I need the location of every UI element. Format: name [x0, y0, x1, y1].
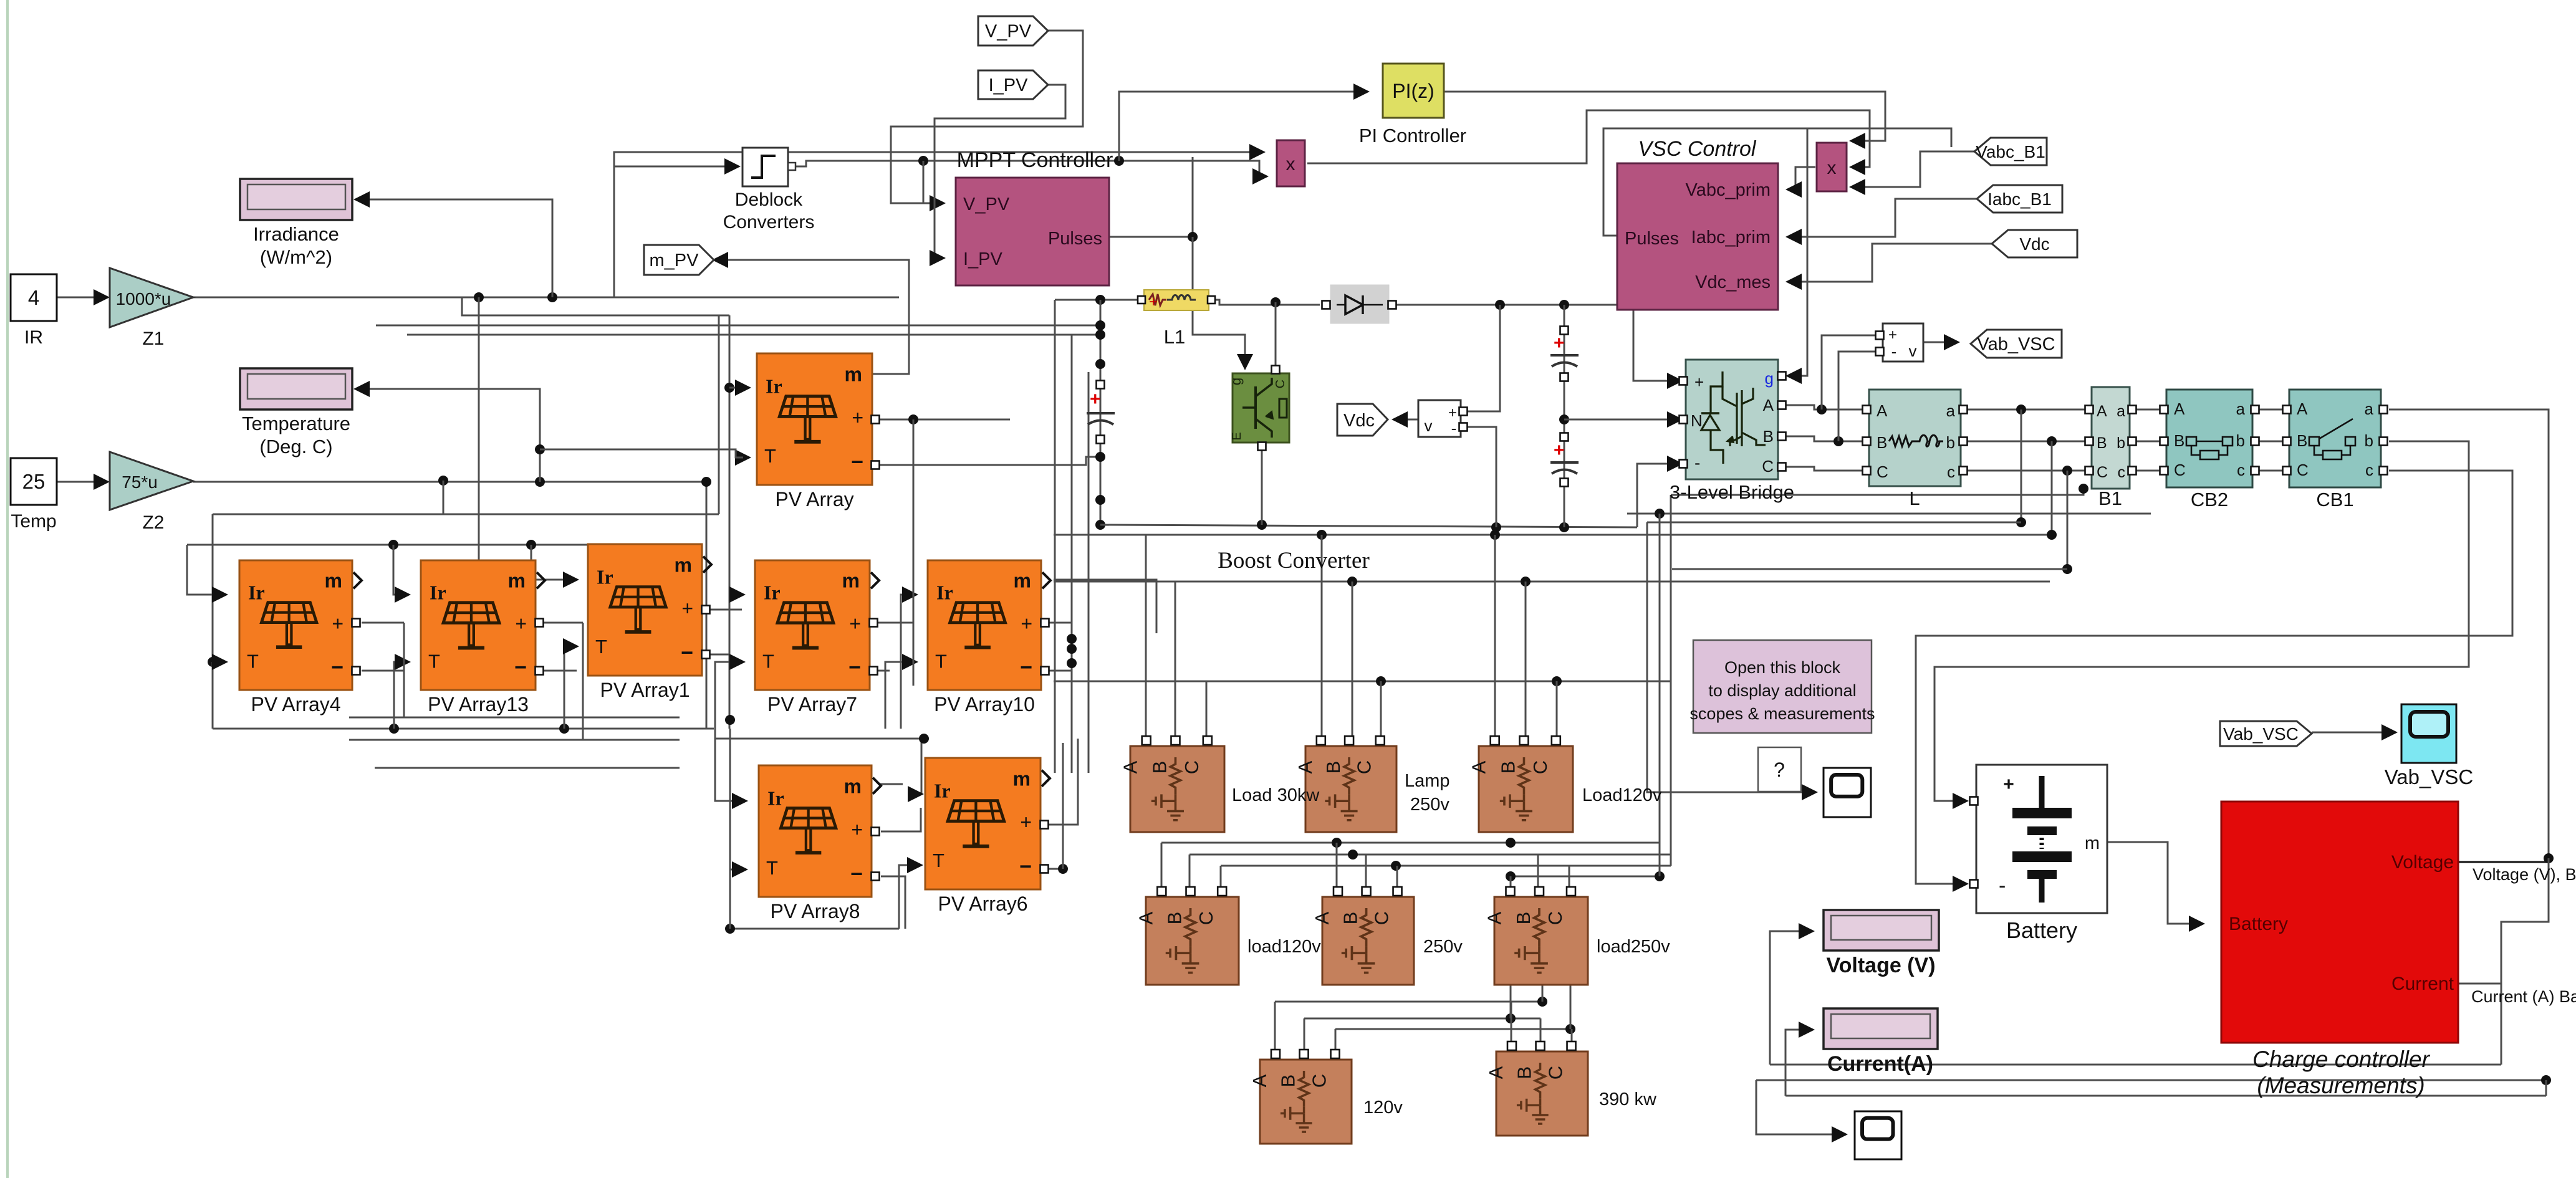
svg-text:load250v: load250v — [1597, 937, 1670, 957]
wire Ir riser to lower arrays — [729, 315, 731, 729]
wire PI output loop — [1444, 92, 1885, 141]
wire aux bus y838 — [1647, 522, 2021, 524]
svg-text:+: + — [851, 818, 863, 841]
svg-text:B: B — [1340, 912, 1362, 925]
svg-text:Ir: Ir — [764, 581, 781, 603]
port CB2 a — [2251, 406, 2259, 414]
wire load120v C drop — [1220, 866, 1222, 893]
wire 120v C drop — [1335, 1029, 1337, 1055]
node row2B j1 — [1348, 850, 1358, 860]
three phase load Load120v — [1468, 736, 1573, 832]
svg-text:B: B — [2174, 431, 2184, 450]
port L A — [1863, 406, 1871, 414]
wire PV Array6 minus stub — [1049, 868, 1063, 870]
node PV plus junction — [908, 414, 918, 424]
svg-text:T: T — [595, 636, 607, 658]
product block X2 — [1817, 143, 1847, 191]
wire Lamp A drop — [1321, 535, 1323, 742]
wire aux row2 horizontals a — [349, 717, 680, 719]
svg-text:C: C — [1529, 760, 1551, 774]
wire phase B row — [1782, 436, 1862, 441]
node riser B bottom — [2047, 530, 2057, 540]
svg-text:a: a — [1946, 401, 1956, 420]
wire Vdc from-tag to VSC — [1789, 244, 1992, 282]
wire riser bundle b — [1659, 514, 1661, 876]
port B1 b — [2128, 438, 2136, 446]
node PV Array6 minus junction — [1058, 864, 1068, 874]
from tag Iabc_B1 — [1977, 185, 2062, 213]
svg-text:Battery: Battery — [2006, 917, 2077, 943]
wire PV Array10 minus stub — [1049, 670, 1072, 672]
wire bottom return bus — [730, 928, 899, 930]
wire row3 bus A — [1275, 1001, 1542, 1003]
svg-text:B: B — [1148, 761, 1170, 774]
svg-text:Z2: Z2 — [142, 512, 164, 533]
wire T feed PV Array4 — [213, 661, 220, 663]
wire IR constant to gain Z1 — [57, 297, 105, 299]
wire VSC Pulses loop — [1603, 128, 1951, 236]
wire to Voltage display — [1770, 931, 1807, 1065]
arrowhead into PI controller — [1353, 84, 1370, 100]
svg-text:+: + — [1020, 811, 1032, 833]
svg-text:c: c — [2365, 461, 2373, 479]
wire phase A B1 to CB2 — [2136, 409, 2160, 411]
wire riser bundle c — [1670, 495, 1672, 866]
node row3B j — [1506, 1013, 1516, 1023]
svg-text:m: m — [508, 570, 526, 592]
svg-text:m: m — [845, 363, 862, 385]
wire DC bundle riser 3 — [1088, 372, 1090, 773]
svg-text:Vdc: Vdc — [1343, 411, 1375, 431]
node row2D j1 — [1506, 871, 1516, 881]
port cap3 top — [1560, 433, 1569, 441]
wire Ir drop PV Array13 — [393, 545, 403, 595]
wire phase B L to B1 — [1968, 441, 2085, 443]
wire T feed PV Array6 — [899, 865, 915, 929]
wire DC bundle riser 2 — [1071, 335, 1073, 773]
arrowhead into Irradiance display — [353, 191, 370, 208]
wire row3 bus B — [1304, 1018, 1540, 1020]
wire row2 bus A — [1161, 842, 1660, 844]
wire phase A L to B1 — [1968, 409, 2085, 411]
wire riser bundle a — [1647, 522, 1809, 792]
port B1 C — [2085, 467, 2093, 475]
wire bottom return drop — [729, 869, 731, 929]
battery block — [1976, 765, 2107, 913]
node Z2 output junction — [535, 477, 545, 487]
wire aux row2 horizontals c — [375, 767, 680, 769]
port PV Array8 minus — [872, 873, 880, 881]
node Ir bus junction b — [526, 540, 536, 550]
wire load250v A drop — [1510, 876, 1512, 893]
node cap1 j3 — [1095, 359, 1105, 369]
port PV Array1 minus — [702, 651, 710, 659]
svg-text:Ir: Ir — [766, 375, 782, 397]
arrowhead into bridge N — [1667, 411, 1683, 428]
node phase A vmeter tap — [1817, 405, 1827, 414]
svg-text:V_PV: V_PV — [963, 194, 1010, 214]
svg-text:Load120v: Load120v — [1582, 785, 1662, 805]
svg-text:-: - — [1451, 419, 1457, 438]
svg-text:Temperature: Temperature — [242, 413, 350, 434]
arrowhead into m_PV tag — [712, 252, 728, 268]
goto tag Vdc — [1337, 404, 1388, 436]
node T feed junction — [535, 444, 545, 454]
svg-text:B: B — [1877, 433, 1887, 452]
block Deblock Converters — [743, 148, 795, 186]
arrowhead into bridge g input — [1785, 368, 1802, 384]
svg-text:MPPT Controller: MPPT Controller — [957, 148, 1113, 172]
arrowhead into PV Array13 T — [395, 654, 411, 670]
wire PV Array13 plus riser — [582, 623, 584, 740]
svg-text:x: x — [1286, 154, 1295, 175]
wire T lower bus — [213, 728, 714, 730]
wire Lamp B drop — [1352, 582, 1353, 742]
port bridge plus — [1680, 377, 1688, 385]
wire voltmeter plus tap — [1468, 305, 1500, 411]
svg-text:Converters: Converters — [723, 212, 815, 232]
svg-text:Vab_VSC: Vab_VSC — [2223, 724, 2299, 744]
wire PV Array4 plus stub — [362, 622, 404, 624]
wire row3 riser c — [1570, 985, 1572, 1029]
wire Load120v B drop — [1525, 582, 1527, 742]
wire V_PV goto loop — [891, 31, 1083, 203]
svg-text:T: T — [766, 857, 778, 879]
port CB2 b — [2251, 438, 2259, 446]
wire load bus row1 A — [1054, 534, 2052, 536]
arrowhead into PV Array7 T — [729, 654, 746, 670]
svg-text:C: C — [1309, 1074, 1330, 1088]
wire Load30kw A drop — [1145, 535, 1147, 742]
svg-text:Ir: Ir — [767, 787, 784, 809]
svg-text:I_PV: I_PV — [989, 75, 1029, 95]
svg-text:B: B — [1322, 761, 1344, 774]
svg-text:m: m — [842, 570, 860, 592]
wire 250v A drop — [1336, 843, 1338, 893]
svg-text:m: m — [1014, 570, 1031, 592]
svg-text:Open this block: Open this block — [1724, 658, 1841, 677]
node aux bus j — [1655, 509, 1665, 519]
wire Ir feed PV Array8 — [715, 729, 740, 801]
port vmeter2 plus — [1876, 332, 1884, 340]
wire T hook — [212, 514, 214, 662]
wire T feed PV Array7 — [715, 662, 738, 729]
port diode anode — [1322, 301, 1330, 309]
display block Voltage V — [1824, 910, 1939, 951]
arrowhead into PV Array10 T — [902, 654, 918, 670]
wire I_PV goto loop — [935, 85, 1065, 258]
wire load120v A drop — [1161, 843, 1163, 893]
node bus C j2 — [1552, 676, 1562, 686]
PV array block PV Array1 — [588, 544, 711, 676]
wire phase A riser to load bus — [2021, 409, 2022, 522]
svg-text:Vdc: Vdc — [2019, 234, 2049, 254]
svg-text:C: C — [1544, 911, 1566, 925]
port CB2 C — [2160, 467, 2168, 475]
port B1 a — [2128, 406, 2136, 414]
arrowhead into PV Array4 T — [212, 654, 228, 670]
arrowhead into PV Array8 T — [732, 861, 748, 878]
node T lower bus junction b — [559, 724, 569, 734]
port PV Array13 minus — [536, 667, 544, 675]
svg-text:−: − — [848, 656, 861, 679]
svg-text:PV Array4: PV Array4 — [251, 693, 340, 716]
display block Irradiance — [240, 179, 352, 220]
svg-text:g: g — [1228, 378, 1244, 385]
node cap2 mid junction — [1559, 414, 1569, 424]
subsystem VSC Control — [1617, 163, 1778, 310]
svg-text:b: b — [2117, 434, 2125, 452]
port PV Array1 plus — [702, 606, 710, 614]
arrowhead into MPPT V_PV input — [930, 195, 946, 211]
svg-text:B: B — [1277, 1075, 1299, 1088]
three phase breaker CB1 — [2289, 390, 2381, 487]
svg-text:250v: 250v — [1423, 937, 1463, 957]
svg-text:−: − — [851, 451, 863, 474]
wire 390kw A drop — [1511, 1002, 1512, 1047]
node bundle junction 2 — [1067, 644, 1077, 654]
subsystem MPPT Controller — [956, 178, 1109, 285]
arrowhead into Vab_VSC scope — [2381, 724, 2398, 740]
svg-text:T: T — [247, 651, 259, 673]
capacitor C3 lower symbol — [1550, 440, 1579, 474]
port CB1 A — [2283, 406, 2291, 414]
wire CB1 a to battery plus loop — [2389, 409, 2549, 858]
port battery minus — [1970, 880, 1978, 888]
arrowhead into charge controller Battery — [2189, 916, 2205, 932]
svg-text:−: − — [1019, 855, 1032, 879]
node T lower bus junction — [389, 724, 399, 734]
node bundle junction 3 — [1067, 658, 1077, 668]
port bridge A — [1778, 401, 1786, 409]
three phase load load250v — [1484, 887, 1588, 985]
arrowhead into VSC Vabc_prim — [1785, 181, 1802, 198]
node PI branch junction — [1114, 156, 1124, 166]
wire PV Array6 minus riser — [1062, 743, 1064, 869]
wire Load30kw C drop — [1206, 681, 1208, 742]
wire bottom bus 2 to scope2 — [1756, 1080, 1839, 1134]
wire phase C row — [1782, 467, 1862, 471]
wire row3 feed bus — [715, 738, 924, 740]
wire T feed PV Array8 — [730, 729, 740, 869]
help block question mark — [1758, 747, 1801, 792]
node L1 left junction — [1095, 295, 1105, 305]
port boost switch emitter — [1258, 443, 1266, 451]
wire product X2 output to VSC — [1789, 167, 1815, 189]
wire CB1 b to battery loop — [1934, 441, 2469, 801]
port CB1 c — [2380, 467, 2388, 475]
svg-text:-: - — [1891, 342, 1897, 361]
svg-text:c: c — [2237, 461, 2245, 479]
wire MPPT Pulses to product X1 — [1109, 157, 1193, 237]
goto tag V_PV — [978, 16, 1048, 45]
wire 120v A drop — [1274, 1002, 1276, 1055]
svg-text:75*u: 75*u — [122, 472, 158, 492]
scope block lower — [1855, 1111, 1901, 1159]
wire bottom bus 2 — [1756, 1080, 2546, 1081]
svg-text:a: a — [2117, 403, 2125, 420]
wire PV Array8 plus stub — [881, 808, 921, 831]
node bus A j1 — [1317, 530, 1327, 540]
svg-text:?: ? — [1774, 759, 1785, 781]
wire PV Array10 plus stub — [1049, 622, 1072, 624]
three phase load 390 kw — [1485, 1042, 1588, 1136]
svg-text:C: C — [1181, 760, 1203, 774]
svg-text:N: N — [1691, 411, 1703, 430]
wire switch collector riser — [1275, 302, 1277, 368]
node row3 feed junction — [919, 734, 929, 744]
wire bundle top link 2 — [407, 334, 1100, 336]
wire aux bus y913 — [1672, 568, 2067, 570]
svg-text:PV Array13: PV Array13 — [428, 693, 529, 716]
three phase load Lamp 250v — [1294, 736, 1396, 832]
wire Vabc_B1 to product X2 — [1857, 151, 1974, 187]
wire PV Array7 plus stub — [874, 622, 913, 624]
PV array block PV Array13 — [421, 560, 545, 690]
wire PV Array13 minus stub — [542, 670, 577, 672]
wire into Deblock Converters — [614, 166, 733, 297]
node Ir distribution junction — [724, 383, 734, 393]
port L c — [1959, 467, 1968, 475]
wire boost inductor bus left — [1055, 299, 1139, 301]
wire Ir bus hook — [187, 545, 220, 595]
PV array block PV Array10 — [928, 560, 1050, 690]
arrowhead into product X1 lower input — [1252, 168, 1269, 184]
svg-text:A: A — [1484, 911, 1506, 924]
svg-text:(Measurements): (Measurements) — [2257, 1073, 2425, 1098]
wire row3 riser b — [1510, 985, 1512, 1018]
svg-text:−: − — [681, 641, 693, 665]
wire aux row2 horizontals b — [349, 739, 680, 741]
port PV Array10 plus — [1041, 619, 1049, 627]
arrowhead into product X1 upper input — [1249, 144, 1266, 160]
node Ir bus junction a — [388, 540, 398, 550]
product block X1 — [1277, 140, 1305, 186]
wire CB1 c to battery minus loop — [1916, 471, 2512, 884]
port CB1 a — [2380, 406, 2388, 414]
wire T feed to PV Array — [540, 449, 743, 457]
PV array block PV Array8 — [759, 765, 881, 897]
voltage measurement Vab block — [1883, 323, 1923, 362]
wire load250v C drop — [1569, 866, 1570, 893]
port boost switch collector — [1272, 366, 1280, 374]
svg-text:Z1: Z1 — [142, 328, 164, 349]
svg-text:PV Array: PV Array — [775, 488, 853, 510]
PV array block PV Array4 — [239, 560, 362, 690]
svg-text:b: b — [1946, 433, 1955, 452]
arrowhead into bridge plus — [1667, 373, 1683, 389]
svg-text:B: B — [1763, 427, 1774, 446]
svg-text:Voltage (V), Ba: Voltage (V), Ba — [2473, 865, 2576, 884]
svg-text:Iabc_B1: Iabc_B1 — [1987, 189, 2052, 209]
port PV Array plus — [872, 416, 880, 424]
svg-text:B: B — [1497, 761, 1519, 774]
svg-text:Current (A) Batt: Current (A) Batt — [2471, 987, 2576, 1006]
node Pulses branch junction — [1188, 232, 1198, 242]
svg-text:A: A — [1485, 1066, 1507, 1079]
wire Load120v A drop — [1494, 535, 1496, 742]
wire Pulses branch to boost gate — [1193, 237, 1245, 362]
PV array block PV Array — [757, 353, 872, 485]
goto tag Vab_VSC lower — [2220, 721, 2312, 746]
port PV Array6 minus — [1040, 865, 1049, 873]
node bus A j2 — [1490, 530, 1500, 540]
svg-text:A: A — [1120, 760, 1141, 773]
svg-text:4: 4 — [28, 286, 39, 309]
node row2A j2 — [1506, 838, 1516, 848]
svg-text:m: m — [325, 570, 342, 592]
svg-text:PV Array7: PV Array7 — [767, 693, 857, 716]
port L B — [1863, 438, 1871, 446]
wire T bus upper — [213, 514, 719, 515]
svg-text:Voltage (V): Voltage (V) — [1826, 954, 1935, 977]
svg-text:Lamp: Lamp — [1405, 771, 1450, 791]
arrowhead into product X2 mid input — [1849, 159, 1865, 175]
port L1 left — [1138, 296, 1145, 304]
wire T drop PV Array4 ext — [212, 662, 214, 729]
svg-text:A: A — [1877, 401, 1888, 420]
svg-text:C: C — [2174, 461, 2186, 479]
svg-text:1000*u: 1000*u — [116, 289, 171, 309]
wire Iabc_B1 to VSC — [1789, 199, 1977, 237]
svg-text:B: B — [2097, 434, 2107, 452]
svg-text:−: − — [850, 863, 863, 886]
gain Z1 — [110, 268, 193, 327]
arrowhead into bridge minus — [1667, 456, 1683, 472]
svg-text:B: B — [1512, 912, 1534, 925]
port PV Array4 plus — [352, 619, 360, 627]
wire phase A CB2 to CB1 — [2259, 409, 2282, 411]
wire B1 lower tap — [1671, 489, 2083, 495]
node Z1 output junction b — [547, 292, 557, 302]
svg-text:m: m — [2085, 833, 2100, 853]
port PV Array13 plus — [536, 619, 544, 627]
port PV Array7 plus — [870, 619, 878, 627]
boost switch IGBT block — [1228, 373, 1289, 443]
wire to Irradiance display — [358, 199, 552, 297]
wire Ir drop PV Array1 — [531, 545, 571, 580]
wire product X1 output — [1307, 110, 1870, 167]
svg-text:Ir: Ir — [597, 565, 613, 588]
node cap1 j5 — [1095, 495, 1105, 505]
node row2D j2 — [1655, 871, 1665, 881]
svg-text:B: B — [2297, 431, 2307, 450]
node DC bus junction a — [1495, 300, 1505, 310]
node T riser junction — [725, 715, 735, 725]
three phase load 250v — [1311, 887, 1414, 985]
wire gate signal to bridge g — [1789, 128, 1807, 376]
node cap1 j2 — [1095, 330, 1105, 340]
svg-text:PI Controller: PI Controller — [1359, 125, 1466, 146]
svg-text:C: C — [2097, 464, 2108, 481]
inductor block L1 — [1144, 290, 1209, 310]
svg-text:Ir: Ir — [936, 581, 953, 603]
goto tag Vab_VSC upper — [1971, 330, 2062, 358]
wire right edge drop — [2501, 858, 2549, 1065]
goto tag m_PV — [644, 245, 714, 275]
arrowhead into Vdc goto tag — [1391, 411, 1408, 428]
three phase load load120v — [1135, 887, 1239, 985]
wire PV Array minus output — [878, 457, 1100, 465]
arrowhead into boost IGBT gate — [1237, 354, 1253, 370]
svg-text:L: L — [1909, 487, 1920, 509]
wire bottom bus 3 — [1785, 1095, 2546, 1097]
display block Current A — [1824, 1008, 1938, 1049]
wire load120v B drop — [1189, 855, 1191, 893]
arrowhead into battery minus — [1953, 876, 1969, 892]
wire T riser from Z2 — [706, 482, 708, 729]
wire Vdc voltmeter output — [1401, 419, 1418, 421]
